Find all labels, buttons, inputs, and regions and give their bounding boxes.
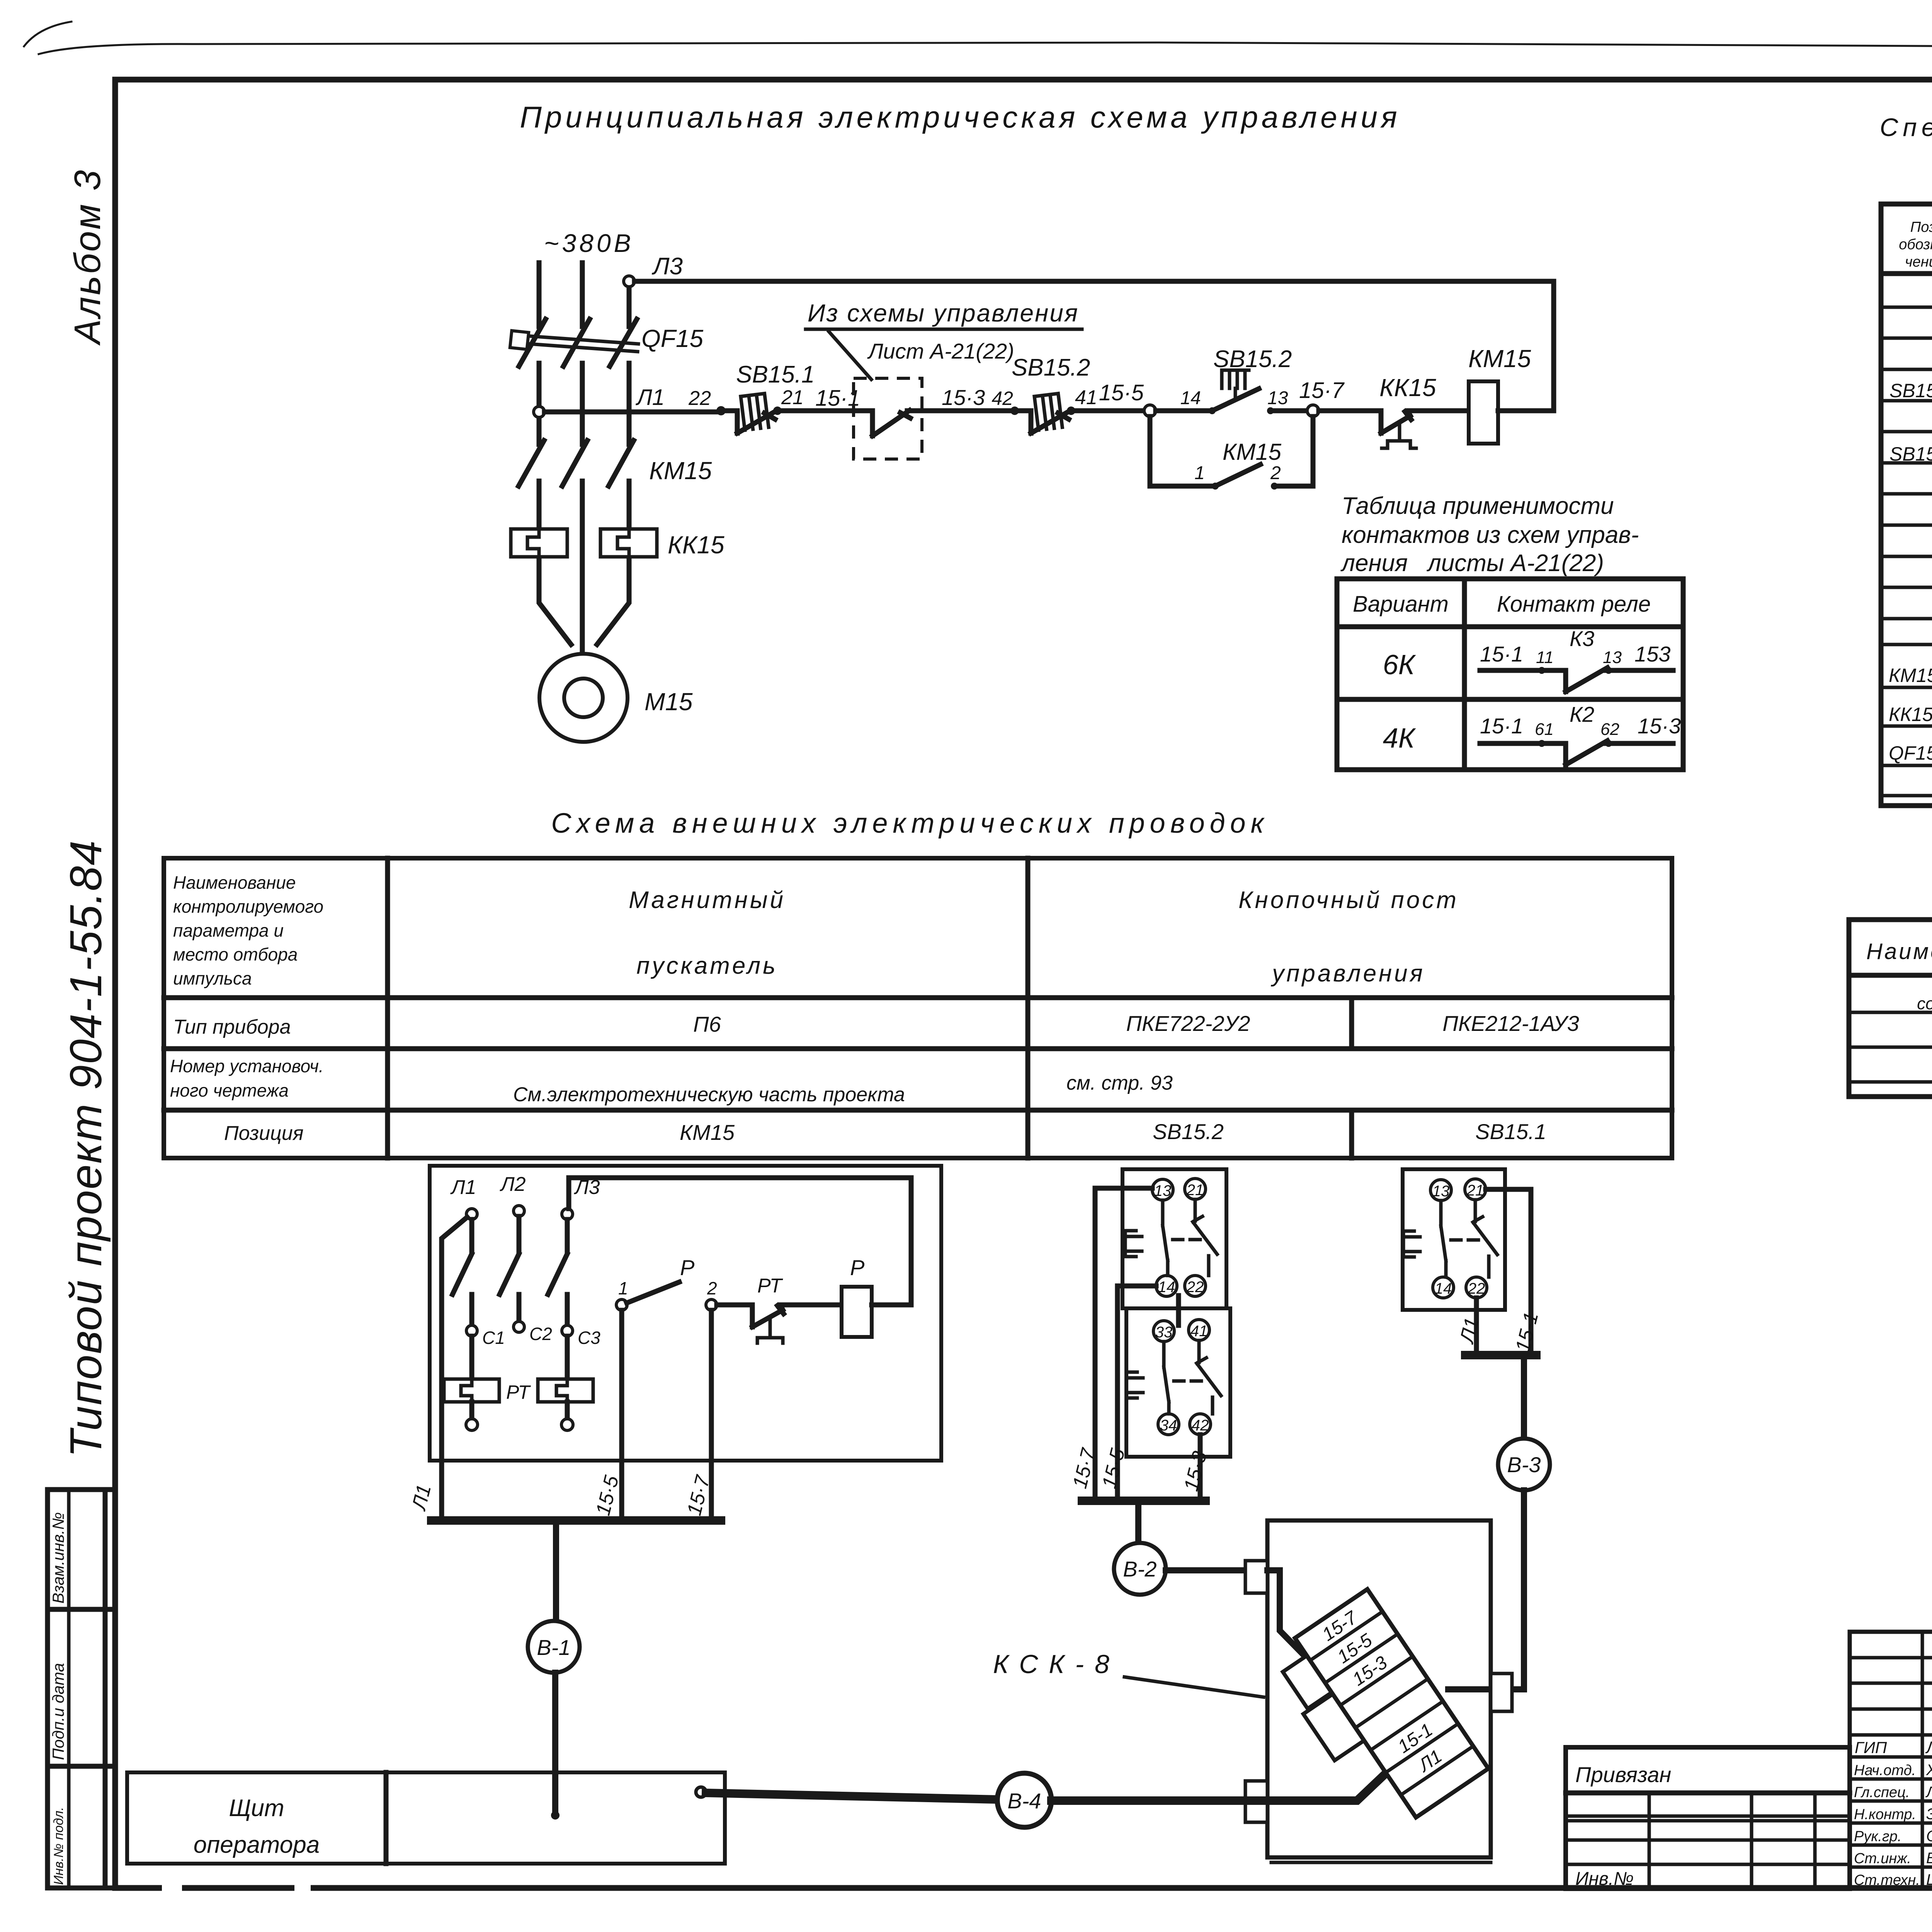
svg-text:Золотарева: Золотарева — [1926, 1806, 1932, 1823]
svg-text:Л1: Л1 — [450, 1176, 476, 1199]
svg-text:Щит: Щит — [229, 1795, 284, 1821]
motor M15 — [539, 654, 628, 742]
svg-text:61: 61 — [1535, 720, 1554, 739]
SB15.1 block contacts — [1441, 1201, 1446, 1277]
svg-text:См.электротехническую часть пр: См.электротехническую часть проекта — [513, 1083, 905, 1106]
latch branch with KM15 aux contact — [1150, 417, 1214, 486]
svg-text:пускатель: пускатель — [636, 952, 778, 979]
svg-text:К2: К2 — [1570, 702, 1594, 726]
svg-text:Леонов: Леонов — [1925, 1738, 1932, 1757]
svg-text:КК15: КК15 — [1889, 704, 1932, 725]
cable circle B-3 — [1498, 1439, 1550, 1490]
terminal 14 — [1433, 1277, 1454, 1298]
node C3 — [562, 1325, 573, 1336]
svg-text:В-1: В-1 — [537, 1635, 570, 1660]
push button block SB15.1 housing — [1403, 1169, 1505, 1310]
node C1 — [466, 1325, 477, 1336]
terminal 22 — [1466, 1277, 1487, 1298]
svg-text:Альбом 3: Альбом 3 — [67, 168, 108, 346]
svg-text:С2: С2 — [529, 1324, 552, 1344]
wire coil to L3 riser — [1498, 281, 1554, 411]
terminal 13 — [1152, 1179, 1173, 1200]
wire from L1 node to left riser — [442, 1217, 467, 1520]
phase wire L1 vertical — [537, 263, 542, 327]
lower terminals — [469, 1402, 474, 1419]
svg-text:SВ15.2: SВ15.2 — [1889, 380, 1932, 401]
svg-text:КК15: КК15 — [1379, 374, 1436, 401]
svg-text:Р: Р — [850, 1255, 864, 1280]
svg-text:Спецификация принципиальной эл: Спецификация принципиальной электрическо… — [1880, 113, 1932, 141]
svg-text:Магнитный: Магнитный — [629, 887, 786, 913]
svg-text:Подп.и дата: Подп.и дата — [49, 1663, 67, 1760]
svg-text:Л2: Л2 — [500, 1173, 526, 1196]
contactor KM15 main contacts — [519, 440, 544, 486]
svg-text:Христофоров: Христофоров — [1926, 1762, 1932, 1779]
wire 15-5 from terminal 14 — [1117, 1286, 1156, 1501]
leader to dashed contact — [829, 332, 871, 379]
svg-text:Лобуновский: Лобуновский — [1925, 1784, 1932, 1801]
risers 15-5 / 15-7 — [619, 1310, 624, 1520]
strip connector plugs — [1283, 1656, 1332, 1709]
binding table Привязан — [1566, 1747, 1850, 1889]
svg-text:1: 1 — [618, 1278, 628, 1298]
svg-text:Ст.инж.: Ст.инж. — [1854, 1850, 1911, 1867]
svg-text:SB15.2: SB15.2 — [1012, 354, 1090, 381]
svg-text:Белявска: Белявска — [1926, 1850, 1932, 1867]
svg-text:22: 22 — [1186, 1279, 1204, 1296]
svg-text:QF15: QF15 — [1889, 742, 1932, 764]
svg-text:21: 21 — [1186, 1182, 1204, 1199]
box tab left bottom — [1245, 1781, 1267, 1822]
svg-text:В-3: В-3 — [1507, 1452, 1541, 1477]
thermal element RT phase1 — [469, 1336, 474, 1379]
svg-text:15·3: 15·3 — [942, 385, 985, 410]
cable bus B-3 — [1465, 1351, 1536, 1359]
thermal relay KK15 heater elements — [511, 529, 567, 557]
contact blades phases — [469, 1219, 474, 1252]
svg-text:15·7: 15·7 — [1299, 378, 1345, 403]
svg-text:обозна-: обозна- — [1899, 236, 1932, 253]
svg-text:ПКЕ722-2У2: ПКЕ722-2У2 — [1126, 1011, 1250, 1036]
svg-text:КМ15: КМ15 — [1468, 345, 1531, 372]
svg-text:33: 33 — [1155, 1324, 1173, 1341]
svg-text:42: 42 — [992, 388, 1013, 409]
svg-text:41: 41 — [1075, 386, 1097, 409]
svg-text:2: 2 — [1270, 463, 1281, 483]
circuit breaker QF15 — [519, 319, 546, 366]
svg-text:Типовой проект 904-1-55.84: Типовой проект 904-1-55.84 — [61, 840, 111, 1458]
junction box KCK-8 — [1267, 1520, 1491, 1857]
svg-text:параметра и: параметра и — [173, 920, 284, 940]
svg-text:Инв.№ подл.: Инв.№ подл. — [51, 1807, 66, 1885]
svg-text:КМ15: КМ15 — [1889, 665, 1932, 686]
terminal 22 — [716, 406, 726, 415]
svg-text:Из схемы управления: Из схемы управления — [808, 299, 1079, 327]
svg-text:13: 13 — [1603, 648, 1622, 667]
svg-text:34: 34 — [1160, 1417, 1177, 1434]
node L1 — [534, 406, 544, 417]
dashed box: contact from control scheme — [854, 378, 922, 459]
terminal 13 — [1430, 1180, 1451, 1201]
svg-text:Наименование: Наименование — [173, 872, 296, 893]
svg-text:КМ15: КМ15 — [1223, 439, 1282, 465]
svg-text:15·1: 15·1 — [1480, 714, 1523, 738]
svg-text:Тип прибора: Тип прибора — [173, 1016, 291, 1038]
svg-text:Кнопочный пост: Кнопочный пост — [1238, 887, 1459, 913]
svg-text:Контакт реле: Контакт реле — [1497, 592, 1651, 617]
svg-text:К3: К3 — [1570, 626, 1594, 651]
strip body — [1295, 1589, 1488, 1818]
svg-text:Ст.техн.: Ст.техн. — [1854, 1872, 1920, 1888]
svg-text:62: 62 — [1600, 720, 1619, 739]
node C2 — [514, 1321, 524, 1332]
svg-text:Наименование: Наименование — [1866, 939, 1932, 964]
svg-text:14: 14 — [1435, 1280, 1452, 1297]
box tab left top — [1245, 1561, 1267, 1593]
terminal 34 — [1158, 1414, 1179, 1435]
svg-text:см. стр. 93: см. стр. 93 — [1066, 1072, 1173, 1094]
svg-text:М15: М15 — [645, 688, 693, 716]
svg-text:42: 42 — [1192, 1417, 1209, 1434]
svg-text:Р: Р — [680, 1255, 694, 1280]
svg-text:Схема внешних электрических пр: Схема внешних электрических проводок — [551, 808, 1269, 839]
svg-text:4К: 4К — [1383, 723, 1416, 754]
svg-text:SВ15.1: SВ15.1 — [1475, 1119, 1546, 1144]
svg-text:место отбора: место отбора — [173, 944, 298, 964]
svg-text:ПКЕ212-1АУ3: ПКЕ212-1АУ3 — [1442, 1011, 1579, 1036]
svg-text:Гл.спец.: Гл.спец. — [1854, 1784, 1910, 1801]
svg-text:РТ: РТ — [506, 1381, 531, 1403]
terminal 41 — [1189, 1320, 1209, 1340]
control line wire L1 — [544, 410, 719, 415]
scan edge line top — [24, 22, 71, 46]
operator panel internal circuit box — [430, 1166, 941, 1461]
terminal 42 — [1190, 1414, 1211, 1435]
node L3 — [624, 276, 634, 287]
cable circle B-4 — [997, 1773, 1051, 1827]
svg-text:~380В: ~380В — [544, 229, 634, 257]
lower block contacts — [1164, 1342, 1169, 1414]
svg-text:21: 21 — [781, 386, 804, 409]
svg-text:Н.контр.: Н.контр. — [1854, 1806, 1916, 1823]
svg-text:С3: С3 — [578, 1328, 600, 1348]
wire from terminal 21 to riser — [1486, 1189, 1531, 1355]
cable bus B-2 — [1082, 1497, 1206, 1505]
spec table 1 grid — [1881, 204, 1932, 806]
svg-text:14: 14 — [1158, 1279, 1175, 1296]
svg-text:13: 13 — [1432, 1183, 1450, 1200]
cable circle B-2 — [1114, 1543, 1166, 1595]
phase wire L2 vertical — [580, 263, 585, 327]
svg-text:6К: 6К — [1383, 650, 1416, 680]
svg-text:13: 13 — [1267, 388, 1288, 408]
signature table — [1850, 1632, 1932, 1889]
svg-text:Таблица применимости: Таблица применимости — [1342, 493, 1614, 519]
svg-text:11: 11 — [1536, 648, 1554, 667]
push button block SB15.2 upper housing — [1122, 1169, 1226, 1308]
terminal 33 — [1153, 1321, 1174, 1342]
operator panel outline box — [127, 1772, 725, 1864]
svg-text:Инв.№: Инв.№ — [1575, 1869, 1634, 1889]
svg-text:контролируемого: контролируемого — [173, 896, 323, 917]
svg-text:РТ: РТ — [757, 1275, 783, 1297]
mechanical link between housings — [1176, 1296, 1181, 1325]
cable circle B-1 — [528, 1621, 580, 1673]
svg-text:153: 153 — [1634, 642, 1670, 666]
svg-text:15·3: 15·3 — [1638, 714, 1681, 738]
frame bottom gap artifacts — [162, 1883, 182, 1893]
svg-text:22: 22 — [1468, 1280, 1485, 1297]
svg-text:Позиция: Позиция — [224, 1122, 304, 1145]
svg-text:Л3: Л3 — [651, 253, 683, 280]
svg-text:ления листы А-21(22): ления листы А-21(22) — [1340, 550, 1604, 577]
wire L3 horizontal — [634, 279, 1554, 284]
terminal 42 — [1010, 406, 1019, 415]
terminal 22 — [1185, 1276, 1206, 1296]
external wiring table grid — [164, 858, 1672, 1158]
svg-text:соединительная: соединительная — [1917, 994, 1932, 1013]
svg-text:Рук.гр.: Рук.гр. — [1854, 1828, 1901, 1845]
wire 15-3 from terminal 42 — [1198, 1435, 1203, 1501]
svg-text:импульса: импульса — [173, 968, 252, 988]
box tab right — [1491, 1673, 1512, 1711]
svg-text:21: 21 — [1466, 1182, 1484, 1199]
svg-text:В-4: В-4 — [1007, 1789, 1041, 1813]
svg-text:управления: управления — [1270, 960, 1425, 987]
wire to B-4 — [706, 1793, 997, 1799]
upper block contacts — [1163, 1200, 1168, 1276]
wire start circle to B-4 — [696, 1787, 706, 1797]
svg-text:КМ15: КМ15 — [680, 1120, 735, 1145]
svg-text:Нач.отд.: Нач.отд. — [1854, 1762, 1916, 1779]
svg-text:В-2: В-2 — [1123, 1557, 1156, 1581]
svg-text:Взам.инв.№: Взам.инв.№ — [49, 1512, 67, 1604]
B-2 wire inside box — [1267, 1570, 1321, 1673]
spec table 2 grid — [1849, 920, 1932, 1097]
terminal 21 — [1185, 1179, 1206, 1199]
terminal 21 — [1465, 1179, 1486, 1200]
svg-text:КК15: КК15 — [668, 531, 724, 559]
svg-text:SВ15.1: SВ15.1 — [1889, 443, 1932, 465]
terminal strip inside KCK-8 — [1265, 1589, 1488, 1837]
svg-text:15·1: 15·1 — [1480, 642, 1523, 666]
svg-text:Поз.: Поз. — [1910, 219, 1932, 235]
svg-text:КМ15: КМ15 — [649, 457, 712, 485]
thermal contact RT in panel — [717, 1305, 842, 1327]
svg-text:КСК-8: КСК-8 — [993, 1650, 1120, 1679]
left stamp column — [45, 1490, 50, 1888]
thermal element RT phase3 — [565, 1336, 570, 1379]
svg-text:Лист А-21(22): Лист А-21(22) — [867, 339, 1014, 363]
phase wire L3 vertical — [627, 287, 632, 327]
svg-text:оператора: оператора — [194, 1832, 320, 1858]
svg-text:Номер установоч.: Номер установоч. — [170, 1056, 324, 1076]
svg-text:22: 22 — [688, 387, 711, 410]
svg-text:14: 14 — [1180, 388, 1201, 408]
wire coil to L3 loop — [569, 1178, 911, 1305]
svg-text:контактов из схем управ-: контактов из схем управ- — [1342, 522, 1639, 548]
svg-text:Вариант: Вариант — [1353, 592, 1449, 617]
svg-text:Принципиальная электрическая: Принципиальная электрическая схема управ… — [520, 100, 1400, 134]
svg-text:П6: П6 — [693, 1012, 721, 1036]
svg-text:Шуст: Шуст — [1926, 1871, 1932, 1888]
wire 15-7 from terminal 13 — [1095, 1188, 1152, 1501]
svg-text:1: 1 — [1194, 463, 1205, 483]
wire from terminal 22 down — [1474, 1298, 1479, 1355]
svg-text:чение: чение — [1905, 254, 1932, 270]
svg-text:ного чертежа: ного чертежа — [170, 1080, 289, 1100]
svg-text:2: 2 — [707, 1278, 717, 1298]
svg-text:Л1: Л1 — [635, 385, 665, 410]
cable bus to B-1 — [431, 1516, 721, 1525]
svg-text:41: 41 — [1190, 1323, 1208, 1340]
svg-text:Привязан: Привязан — [1575, 1762, 1671, 1787]
svg-text:С1: С1 — [482, 1328, 505, 1348]
svg-text:13: 13 — [1154, 1182, 1172, 1199]
applicability table grid — [1337, 579, 1683, 770]
svg-text:SB15.1: SB15.1 — [736, 361, 815, 388]
push button block SB15.2 lower housing — [1126, 1308, 1230, 1457]
svg-text:QF15: QF15 — [641, 325, 703, 352]
terminal 14 — [1156, 1276, 1177, 1296]
svg-text:SВ15.2: SВ15.2 — [1153, 1119, 1224, 1144]
svg-text:ГИП: ГИП — [1855, 1738, 1887, 1757]
svg-text:Седых: Седых — [1926, 1828, 1932, 1845]
svg-text:15·5: 15·5 — [1099, 380, 1144, 405]
